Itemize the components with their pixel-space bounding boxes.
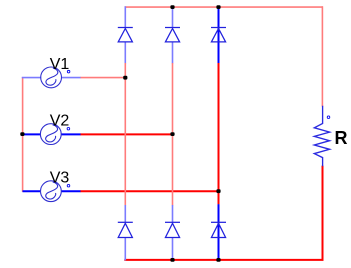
- wire phase A (V1 to leg 1): [81, 77, 127, 79]
- wire leg3 top pin (rail to D3): [218, 6, 220, 63]
- wire leg1 D4 bottom pin: [124, 237, 126, 260]
- wire bottom rail (- bus): [124, 259, 323, 261]
- junction node A (V1 / leg1): [123, 76, 127, 80]
- wire leg2 mid (node B down to D5): [172, 63, 174, 205]
- junction top rail / leg2: [170, 5, 174, 9]
- wire V2 left pin stub: [23, 133, 42, 135]
- R plus terminal mark: [327, 116, 330, 119]
- wire leg1 top pin (rail to D1): [124, 6, 126, 27]
- voltage source V3: [41, 181, 62, 202]
- wire phase C (V3 to leg 3): [81, 190, 220, 192]
- junction node C (V3 / leg3): [216, 189, 220, 193]
- svg-text:V1: V1: [50, 56, 70, 73]
- diode D6: [211, 222, 226, 237]
- V1 plus terminal mark: [67, 70, 70, 73]
- diode D2: [165, 28, 180, 42]
- wire left neutral vertical: [22, 77, 24, 192]
- wire V1 right pin stub: [61, 77, 80, 79]
- wire leg1 D4 top pin: [124, 205, 126, 222]
- wire V2 right pin stub: [61, 133, 81, 135]
- junction bottom rail / leg2: [170, 258, 174, 262]
- wire leg2 D5 bottom pin: [172, 237, 174, 260]
- diode D1: [118, 28, 133, 42]
- wire V1 left pin stub: [22, 77, 41, 79]
- wire right vertical upper (to R top): [321, 6, 323, 106]
- diode D4: [118, 222, 133, 237]
- wire leg3 mid (D3 to node C): [218, 63, 220, 204]
- junction top rail / leg3: [216, 5, 220, 9]
- diode D3: [211, 28, 226, 42]
- svg-text:V3: V3: [50, 170, 70, 187]
- V3 plus terminal mark: [67, 184, 70, 187]
- diode D5: [165, 222, 180, 237]
- wire V3 left pin stub: [23, 190, 42, 192]
- junction node B (V2 / leg2): [170, 132, 174, 136]
- wire leg2 top pin (rail to D2): [172, 6, 174, 27]
- wire leg2 D2 bottom pin: [172, 42, 174, 64]
- voltage source V2: [40, 124, 61, 145]
- wire leg1 D1 bottom pin: [124, 42, 126, 64]
- wire leg2 D5 top pin: [172, 205, 174, 222]
- voltage source V1: [41, 67, 62, 88]
- wire right vertical lower (R bottom to - bus): [322, 166, 324, 261]
- svg-text:V2: V2: [50, 113, 70, 130]
- resistor R: [314, 106, 329, 166]
- junction bottom rail / leg3: [216, 258, 220, 262]
- wire V3 right pin stub: [61, 190, 81, 192]
- svg-text:R: R: [335, 128, 348, 148]
- wire top rail (+ bus): [125, 6, 324, 8]
- wire leg3 bottom (D6): [218, 204, 220, 260]
- wire phase B (V2 to leg 2): [81, 133, 174, 135]
- junction neutral / V2: [20, 132, 24, 136]
- V2 plus terminal mark: [67, 127, 70, 130]
- wire leg1 mid (node A down to D4): [124, 63, 126, 205]
